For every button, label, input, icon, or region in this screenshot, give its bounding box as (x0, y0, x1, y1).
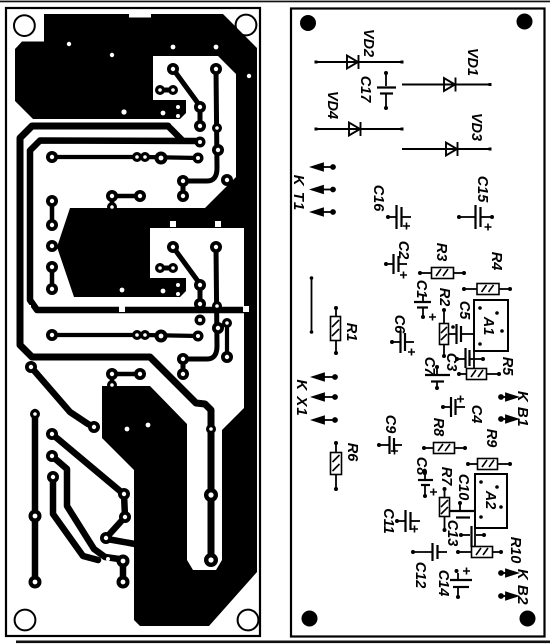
svg-text:K B1: K B1 (514, 391, 531, 427)
svg-text:VD2: VD2 (360, 29, 376, 57)
svg-text:C14: C14 (435, 570, 451, 597)
svg-text:VD4: VD4 (324, 91, 340, 119)
svg-text:R5: R5 (499, 357, 515, 376)
svg-text:R4: R4 (488, 252, 504, 271)
svg-text:R2: R2 (436, 288, 452, 307)
svg-text:R6: R6 (344, 443, 360, 462)
svg-text:C11: C11 (380, 508, 396, 534)
svg-text:C13: C13 (444, 520, 460, 547)
svg-text:C1: C1 (413, 280, 429, 299)
svg-text:VD1: VD1 (464, 48, 480, 76)
svg-text:K B2: K B2 (514, 569, 531, 605)
svg-text:C17: C17 (357, 76, 373, 104)
svg-text:K T1: K T1 (290, 175, 307, 212)
svg-text:A2: A2 (482, 490, 498, 510)
svg-text:C15: C15 (474, 176, 490, 204)
svg-text:R3: R3 (433, 243, 449, 262)
svg-text:K X1: K X1 (293, 379, 310, 416)
svg-text:C5: C5 (456, 301, 472, 320)
svg-text:R1: R1 (343, 323, 359, 342)
svg-text:C7: C7 (421, 357, 437, 376)
svg-text:R9: R9 (483, 429, 499, 448)
svg-text:C10: C10 (455, 474, 471, 501)
svg-text:C8: C8 (413, 457, 429, 476)
svg-text:A1: A1 (480, 316, 496, 336)
svg-text:R10: R10 (507, 537, 523, 564)
svg-text:C6: C6 (391, 315, 407, 334)
svg-text:C4: C4 (468, 405, 484, 424)
svg-text:R8: R8 (430, 418, 446, 437)
svg-text:C3: C3 (443, 353, 459, 372)
svg-text:C9: C9 (382, 415, 398, 434)
svg-text:C12: C12 (412, 562, 428, 589)
svg-text:VD3: VD3 (468, 113, 484, 141)
svg-text:R7: R7 (438, 467, 454, 486)
svg-text:C16: C16 (370, 185, 386, 213)
svg-text:C2: C2 (395, 241, 411, 260)
